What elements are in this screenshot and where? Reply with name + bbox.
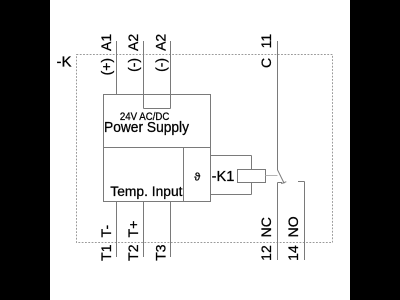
svg-text:A2: A2 [153, 34, 169, 51]
power supply / temp input box [104, 95, 211, 202]
svg-text:T1: T1 [98, 244, 114, 261]
wire A2 (second) [170, 41, 172, 109]
box divider vertical [183, 148, 185, 202]
svg-text:A1: A1 [98, 34, 114, 51]
svg-text:NO: NO [285, 216, 301, 237]
svg-text:ϑ: ϑ [194, 172, 200, 184]
svg-text:T2: T2 [125, 244, 141, 261]
svg-text:(-): (-) [125, 58, 141, 72]
svg-text:Power Supply: Power Supply [104, 120, 190, 136]
wire A1 [116, 41, 118, 95]
coil loop bottom wire [211, 194, 252, 196]
svg-text:C: C [258, 58, 274, 68]
svg-text:-K: -K [57, 53, 72, 70]
svg-text:(+): (+) [98, 58, 114, 76]
coil loop top wire [211, 155, 252, 157]
svg-text:T-: T- [98, 225, 114, 238]
svg-text:-K1: -K1 [212, 169, 235, 185]
svg-text:11: 11 [258, 34, 274, 49]
wire 12 NC [277, 183, 279, 261]
contact blade [278, 170, 285, 184]
svg-text:T+: T+ [125, 221, 141, 238]
coil loop top vertical [251, 156, 253, 170]
wire 14 NO [304, 182, 306, 261]
NC terminal tick [278, 182, 283, 184]
svg-text:A2: A2 [125, 34, 141, 51]
NO terminal tick [298, 181, 305, 183]
svg-text:(-): (-) [153, 58, 169, 72]
box divider horizontal [104, 147, 211, 149]
blade end tick [281, 182, 286, 184]
mechanical link coil to contact [266, 175, 278, 177]
svg-text:T3: T3 [153, 244, 169, 261]
svg-text:14: 14 [285, 245, 301, 261]
A2 bus bar inside box [144, 108, 171, 110]
svg-text:Temp. Input: Temp. Input [110, 184, 182, 200]
wire T3 [170, 202, 172, 258]
white drawing sheet [50, 0, 350, 300]
relay coil K1 rectangle [238, 170, 266, 183]
svg-text:12: 12 [258, 245, 274, 261]
wire T1 [116, 202, 118, 258]
wire C/11 [277, 41, 279, 170]
coil loop bottom vertical [251, 183, 253, 195]
wire T2 [143, 202, 145, 258]
relay boundary -K dashed box [77, 55, 333, 243]
svg-text:NC: NC [258, 217, 274, 237]
wire A2 (first) [143, 41, 145, 109]
